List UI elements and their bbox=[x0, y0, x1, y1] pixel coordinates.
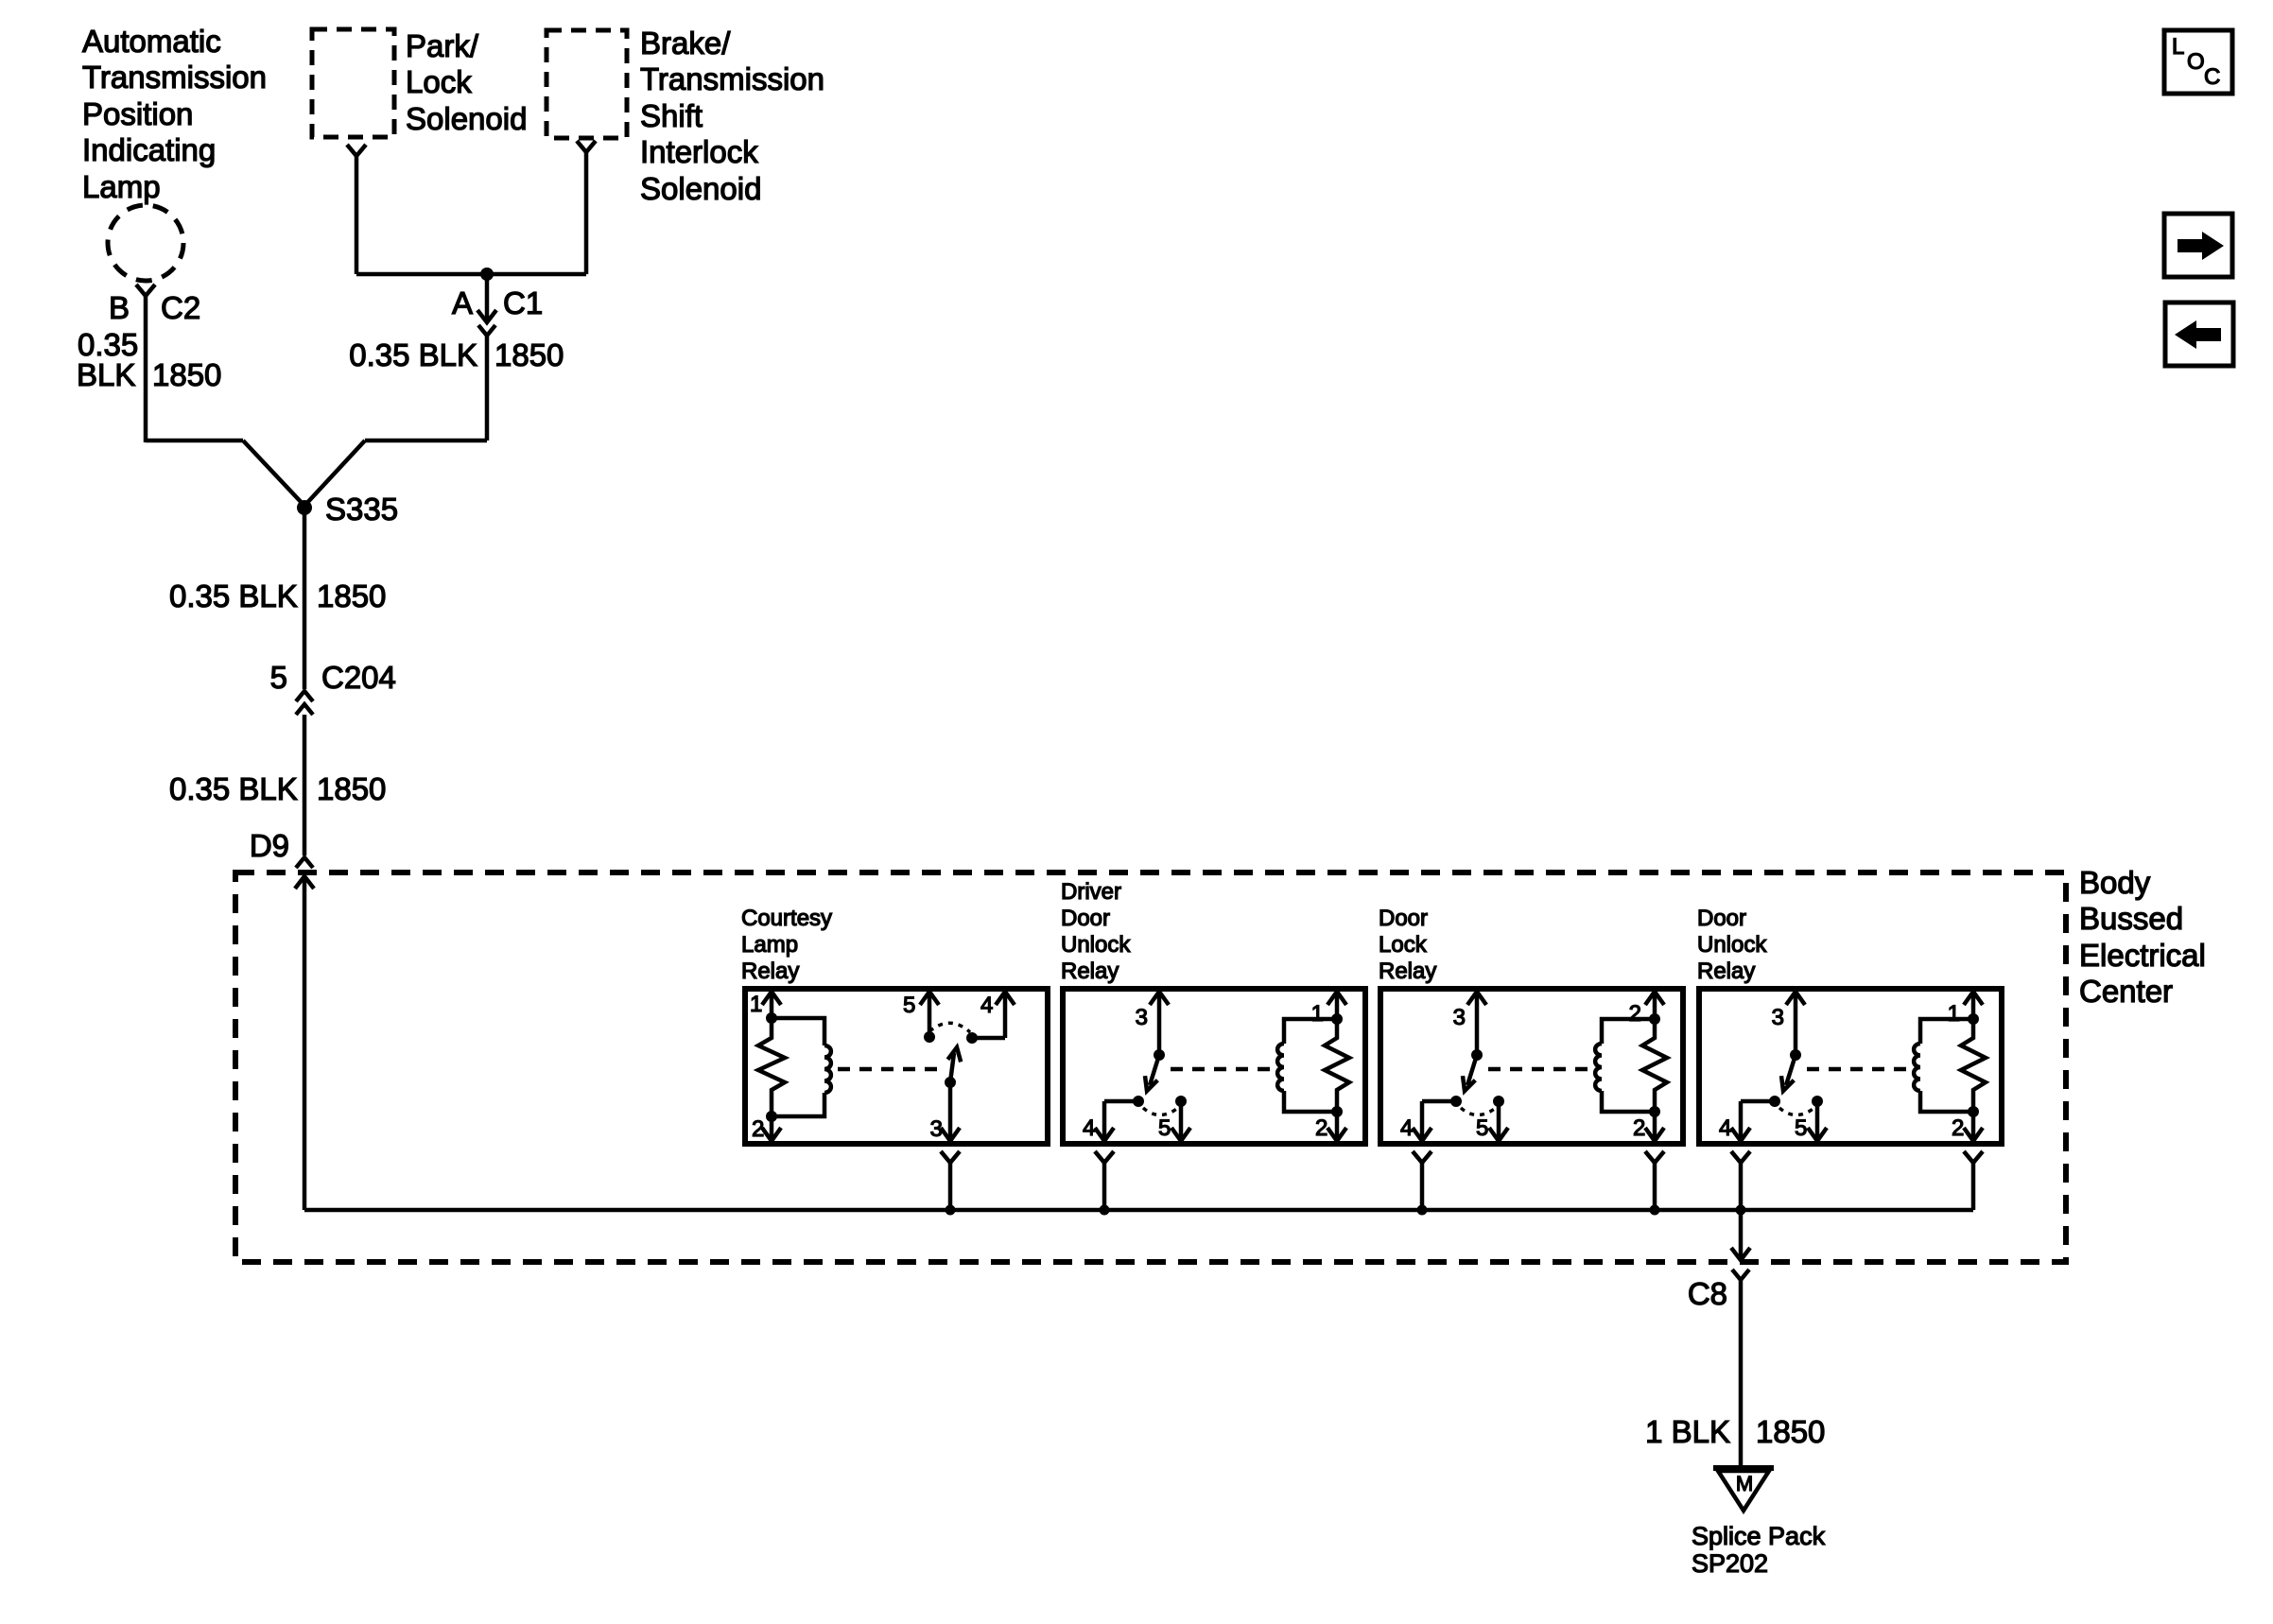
svg-text:1: 1 bbox=[750, 992, 762, 1017]
svg-text:5: 5 bbox=[1476, 1115, 1488, 1141]
svg-text:Driver: Driver bbox=[1061, 879, 1121, 905]
svg-text:Unlock: Unlock bbox=[1061, 932, 1131, 958]
svg-text:2: 2 bbox=[752, 1116, 764, 1142]
svg-text:Indicating: Indicating bbox=[82, 132, 216, 167]
svg-text:5: 5 bbox=[903, 993, 915, 1018]
svg-text:2: 2 bbox=[1629, 1001, 1641, 1027]
svg-text:D9: D9 bbox=[250, 828, 289, 863]
svg-text:Relay: Relay bbox=[1061, 959, 1119, 984]
svg-text:C8: C8 bbox=[1688, 1276, 1727, 1311]
svg-text:0.35 BLK: 0.35 BLK bbox=[169, 579, 298, 613]
svg-text:1 BLK: 1 BLK bbox=[1645, 1414, 1730, 1449]
svg-text:C1: C1 bbox=[503, 285, 543, 320]
svg-text:Electrical: Electrical bbox=[2079, 938, 2206, 973]
svg-text:1850: 1850 bbox=[1756, 1414, 1825, 1449]
svg-text:SP202: SP202 bbox=[1692, 1549, 1768, 1578]
svg-text:O: O bbox=[2187, 49, 2205, 75]
svg-text:Lamp: Lamp bbox=[82, 169, 161, 204]
svg-text:1850: 1850 bbox=[317, 579, 386, 613]
svg-text:4: 4 bbox=[980, 993, 993, 1018]
svg-text:Body: Body bbox=[2079, 865, 2151, 900]
svg-text:Courtesy: Courtesy bbox=[741, 906, 832, 931]
svg-text:Brake/: Brake/ bbox=[640, 26, 731, 60]
svg-text:S335: S335 bbox=[325, 492, 398, 527]
svg-text:M: M bbox=[1736, 1472, 1753, 1495]
svg-text:A: A bbox=[452, 285, 473, 320]
svg-text:Door: Door bbox=[1061, 906, 1110, 931]
svg-text:1: 1 bbox=[1311, 1001, 1324, 1027]
svg-text:Solenoid: Solenoid bbox=[640, 171, 761, 206]
svg-text:4: 4 bbox=[1400, 1115, 1413, 1141]
svg-text:Relay: Relay bbox=[1697, 959, 1755, 984]
svg-text:4: 4 bbox=[1083, 1115, 1095, 1141]
svg-text:0.35 BLK: 0.35 BLK bbox=[169, 771, 298, 806]
svg-text:5: 5 bbox=[1158, 1115, 1171, 1141]
svg-text:Transmission: Transmission bbox=[82, 60, 267, 95]
svg-text:1: 1 bbox=[1948, 1001, 1960, 1027]
svg-text:Relay: Relay bbox=[1379, 959, 1436, 984]
svg-text:BLK: BLK bbox=[77, 357, 135, 392]
svg-text:Transmission: Transmission bbox=[640, 61, 824, 96]
svg-text:Shift: Shift bbox=[640, 98, 703, 133]
svg-text:Door: Door bbox=[1697, 906, 1746, 931]
svg-text:Solenoid: Solenoid bbox=[406, 101, 527, 136]
svg-text:3: 3 bbox=[1136, 1005, 1148, 1030]
svg-text:C2: C2 bbox=[161, 290, 200, 325]
svg-text:5: 5 bbox=[270, 660, 287, 695]
svg-text:Center: Center bbox=[2079, 974, 2173, 1009]
svg-text:Park/: Park/ bbox=[406, 28, 479, 63]
svg-text:1850: 1850 bbox=[495, 337, 564, 372]
svg-text:1850: 1850 bbox=[152, 357, 221, 392]
svg-text:2: 2 bbox=[1633, 1115, 1645, 1141]
svg-text:B: B bbox=[109, 290, 130, 325]
svg-text:2: 2 bbox=[1952, 1115, 1964, 1141]
svg-text:Lock: Lock bbox=[1379, 932, 1428, 958]
svg-text:3: 3 bbox=[930, 1116, 943, 1142]
svg-text:L: L bbox=[2172, 34, 2184, 60]
svg-text:Unlock: Unlock bbox=[1697, 932, 1767, 958]
svg-text:3: 3 bbox=[1453, 1005, 1466, 1030]
svg-text:Relay: Relay bbox=[741, 959, 799, 984]
svg-text:C: C bbox=[2204, 64, 2220, 90]
svg-text:Interlock: Interlock bbox=[640, 134, 758, 169]
svg-text:Automatic: Automatic bbox=[82, 24, 221, 59]
svg-text:Bussed: Bussed bbox=[2079, 901, 2183, 936]
svg-text:2: 2 bbox=[1315, 1115, 1327, 1141]
svg-text:Door: Door bbox=[1379, 906, 1428, 931]
svg-text:Lamp: Lamp bbox=[741, 932, 798, 958]
svg-text:Lock: Lock bbox=[406, 64, 472, 99]
svg-text:1850: 1850 bbox=[317, 771, 386, 806]
svg-text:C204: C204 bbox=[321, 660, 396, 695]
svg-text:Splice Pack: Splice Pack bbox=[1692, 1522, 1826, 1550]
svg-text:0.35 BLK: 0.35 BLK bbox=[349, 337, 477, 372]
svg-text:Position: Position bbox=[82, 96, 193, 131]
svg-text:5: 5 bbox=[1795, 1115, 1807, 1141]
svg-text:3: 3 bbox=[1772, 1005, 1784, 1030]
svg-text:4: 4 bbox=[1719, 1115, 1731, 1141]
